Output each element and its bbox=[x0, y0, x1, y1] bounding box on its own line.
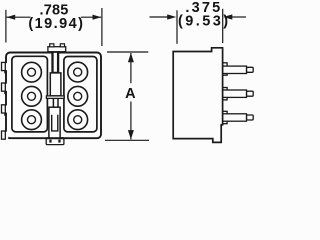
right cavity bbox=[64, 57, 97, 132]
bottom foot bbox=[46, 138, 64, 145]
terminal circle inner row3 col2 bbox=[74, 116, 82, 124]
top bump right bbox=[60, 44, 64, 47]
left edge cut for tab 1 bbox=[5, 63, 8, 70]
dimension .375 right extension line bbox=[222, 9, 224, 43]
left latch tab 1 tail bbox=[4, 71, 6, 74]
center flange band bbox=[46, 96, 64, 99]
pin 3 shaft bbox=[223, 114, 247, 121]
terminal circle inner row2 col2 bbox=[74, 92, 82, 100]
dimension A line top segment bbox=[130, 53, 132, 83]
center stem left line bbox=[52, 98, 54, 107]
dimension .375 right leader line bbox=[232, 16, 246, 18]
terminal circle inner row1 col1 bbox=[28, 68, 36, 76]
dimension .785 left extension line bbox=[5, 10, 7, 43]
pin 1 shaft bbox=[223, 66, 247, 73]
center lower tower bbox=[49, 107, 60, 138]
left latch tab 3 bbox=[2, 105, 6, 113]
left edge cut for tab 2 bbox=[5, 84, 8, 91]
dimension A bottom extension line bbox=[105, 139, 149, 141]
terminal circle outer row3 col1 bbox=[22, 110, 42, 130]
dimension A up arrowhead bbox=[128, 53, 134, 62]
side view body bbox=[173, 48, 222, 143]
bottom foot hole left bbox=[49, 140, 51, 143]
center mid channel bbox=[50, 73, 61, 96]
dimension .375 right arrowhead bbox=[223, 14, 232, 19]
dimension .785 line right segment bbox=[81, 16, 101, 18]
center stem right line bbox=[57, 98, 59, 107]
svg-text:(19.94): (19.94) bbox=[28, 16, 84, 32]
left latch tab 2 bbox=[2, 83, 6, 91]
terminal circle outer row2 col1 bbox=[22, 86, 42, 106]
terminal circle inner row3 col1 bbox=[28, 116, 36, 124]
left cavity bbox=[12, 56, 48, 132]
pin 2 shaft bbox=[223, 90, 247, 97]
pin 2 collar bbox=[223, 88, 227, 100]
dimension A top extension line bbox=[107, 51, 148, 53]
pin 1 collar bbox=[223, 63, 227, 75]
terminal circle inner row1 col2 bbox=[74, 68, 82, 76]
top T-bar bbox=[48, 47, 66, 52]
center inner U bbox=[52, 115, 58, 131]
terminal circle outer row2 col2 bbox=[68, 86, 88, 106]
pin 2 tip bbox=[247, 91, 254, 96]
left edge cut for tab 3 bbox=[5, 106, 8, 113]
left edge cut for tab 4 bbox=[5, 132, 8, 139]
dimension .375 left leader line bbox=[150, 16, 168, 18]
terminal circle inner row2 col1 bbox=[28, 92, 36, 100]
dimension A down arrowhead bbox=[128, 130, 134, 139]
left latch tab 2 tail bbox=[4, 91, 6, 94]
left latch tab 4 bbox=[2, 131, 6, 139]
housing outline (front view) bbox=[6, 53, 101, 139]
bottom foot hole right bbox=[58, 140, 60, 143]
dimension .785 right extension line bbox=[101, 8, 103, 46]
pin 1 tip bbox=[247, 67, 254, 72]
pin 3 collar bbox=[223, 111, 227, 123]
center neck slot bbox=[53, 52, 59, 73]
dimension .785 line left segment bbox=[6, 16, 30, 18]
dimension A line bottom segment bbox=[130, 102, 132, 140]
terminal circle outer row1 col1 bbox=[22, 62, 42, 82]
svg-text:A: A bbox=[125, 86, 136, 102]
dimension .375 left arrowhead bbox=[167, 14, 176, 19]
pin 3 tip bbox=[247, 115, 254, 120]
svg-text:(9.53): (9.53) bbox=[178, 13, 231, 29]
left latch tab 1 bbox=[2, 62, 6, 70]
left latch tab 3 tail bbox=[4, 113, 6, 116]
terminal circle outer row3 col2 bbox=[68, 110, 88, 130]
housing bottom line across foot bbox=[46, 137, 65, 139]
dimension .375 left extension line bbox=[176, 10, 178, 44]
terminal circle outer row1 col2 bbox=[68, 62, 88, 82]
dimension .785 right arrowhead bbox=[93, 15, 102, 20]
top bump left bbox=[50, 44, 54, 47]
dimension .785 left arrowhead bbox=[6, 15, 15, 20]
